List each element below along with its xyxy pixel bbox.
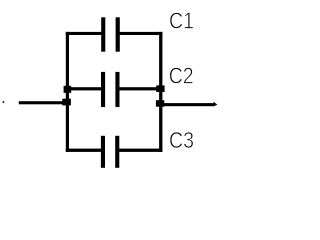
wire: top branch left segment xyxy=(66,32,104,35)
svg-text:C3: C3 xyxy=(169,127,194,153)
capacitor C2 xyxy=(101,72,120,107)
node dot artifact left tip xyxy=(3,101,5,103)
node: right middle-branch junction xyxy=(156,85,164,92)
wire: left vertical bus xyxy=(66,32,69,152)
node: left input junction xyxy=(62,99,71,106)
node: left middle-branch junction xyxy=(64,86,72,93)
wire: top branch right segment xyxy=(118,32,163,35)
wire: input lead left xyxy=(19,101,68,104)
svg-text:C2: C2 xyxy=(169,63,194,89)
svg-text:C1: C1 xyxy=(169,8,194,34)
wire: bottom branch left segment xyxy=(66,149,104,152)
capacitor C3 xyxy=(101,136,119,168)
wire: right vertical bus xyxy=(159,32,162,152)
wire: middle branch right segment xyxy=(118,87,161,90)
arrowhead output xyxy=(214,102,218,107)
wire: middle branch left segment xyxy=(67,87,103,90)
wire: bottom branch right segment xyxy=(118,149,163,152)
wire: output lead right xyxy=(162,103,214,106)
capacitor C1 xyxy=(101,17,120,51)
node: right output junction xyxy=(156,100,164,107)
